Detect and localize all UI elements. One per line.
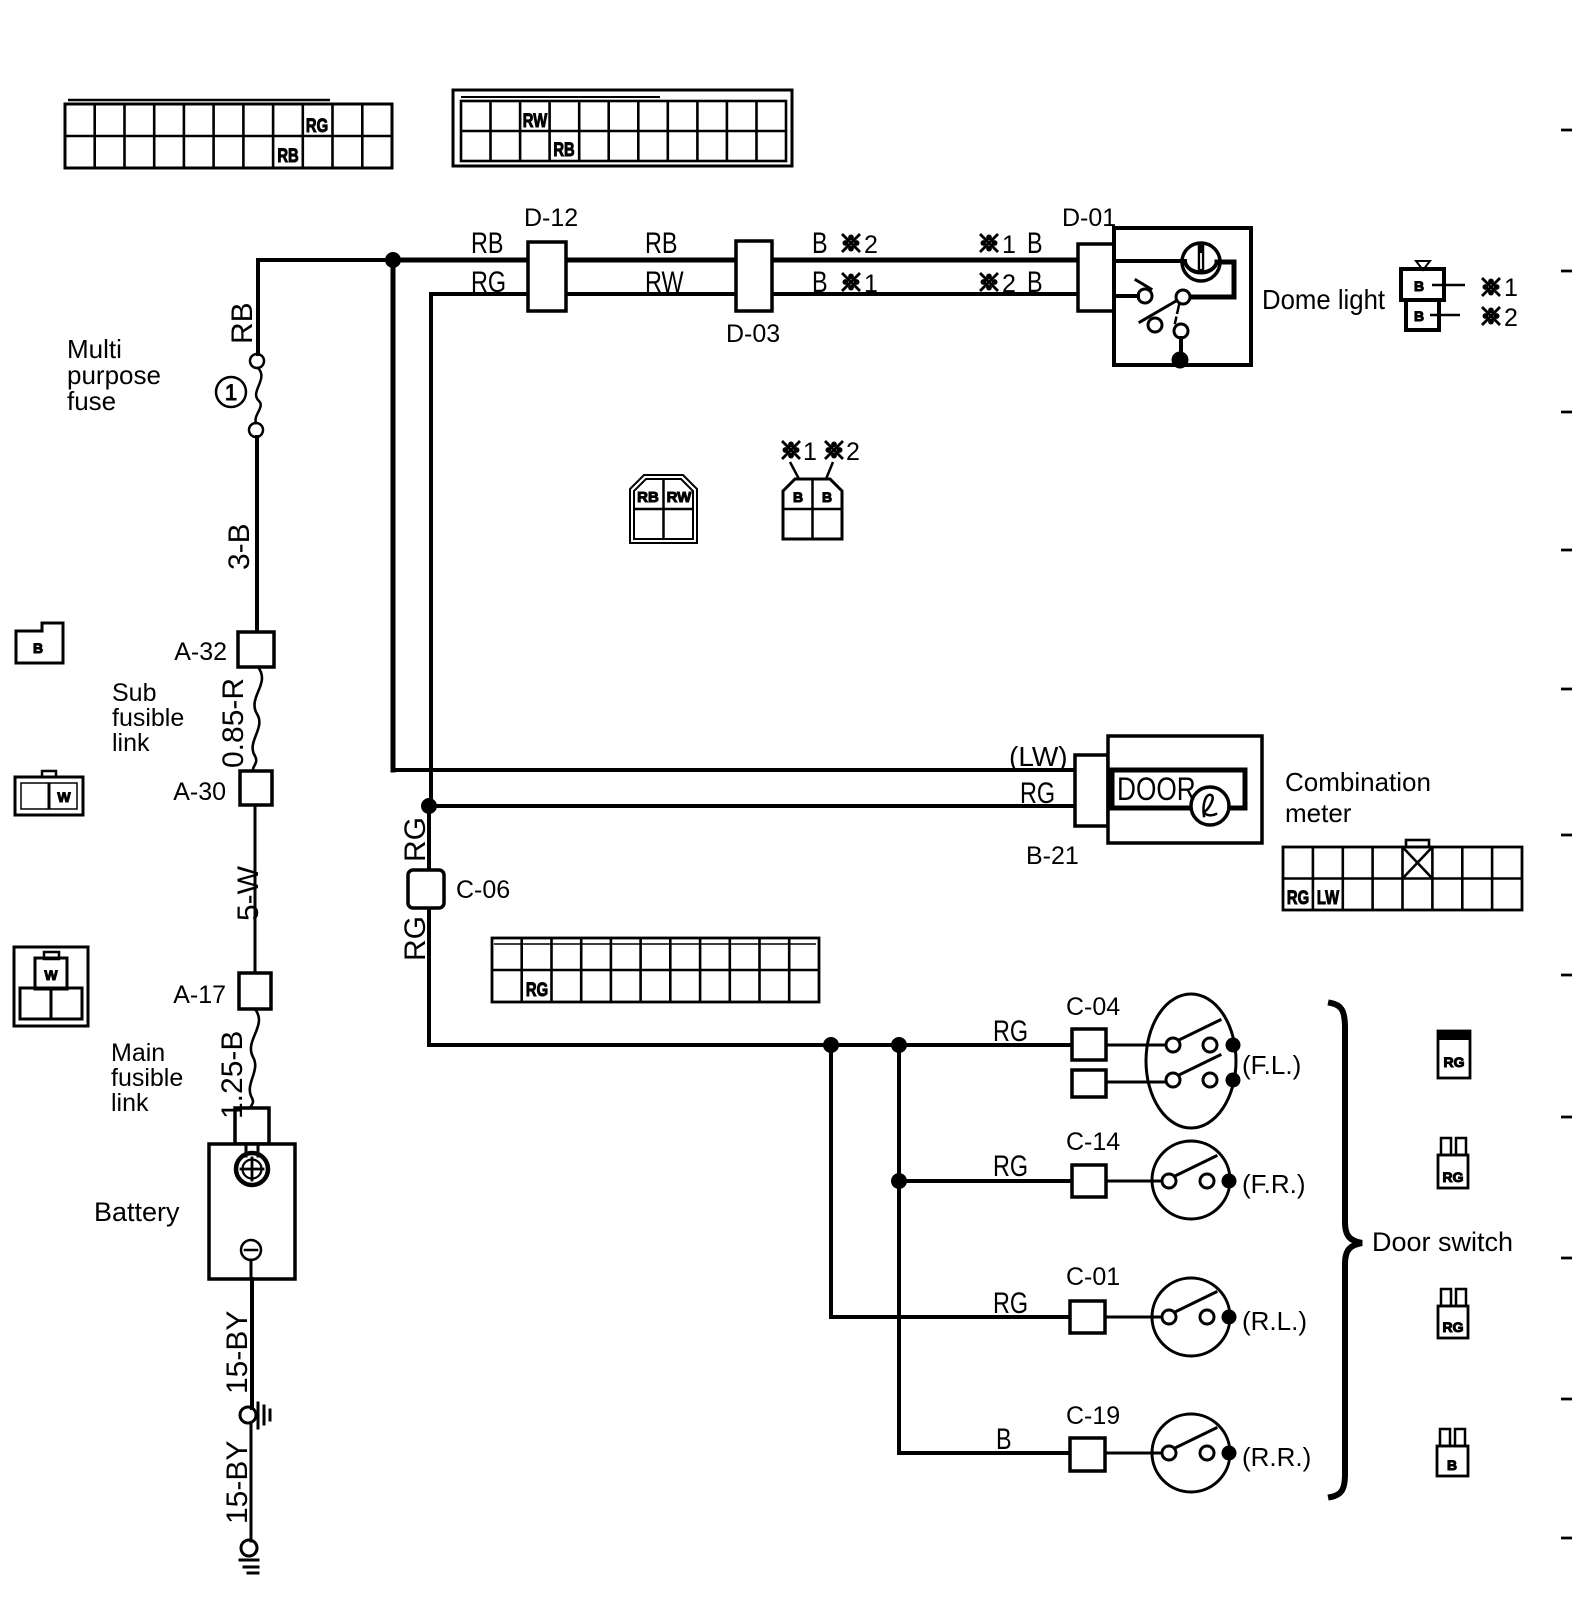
connector C-04 — [1072, 1029, 1106, 1060]
svg-text:RW: RW — [523, 110, 548, 131]
connector icon RB/RW (double border, chamfered) — [630, 475, 697, 543]
door switch group brace — [1331, 1003, 1362, 1497]
svg-text:D-01: D-01 — [1062, 204, 1116, 232]
svg-text:RG: RG — [993, 1286, 1028, 1319]
edge tick marks — [1561, 130, 1572, 1538]
svg-text:RG: RG — [471, 265, 506, 298]
wire LW horizontal to combination meter — [393, 768, 1077, 772]
svg-text:1.25-B: 1.25-B — [216, 1031, 249, 1119]
connector C-19 — [1070, 1438, 1105, 1471]
door switch F.L. — [1146, 994, 1236, 1128]
connector A-17 — [239, 973, 271, 1009]
node junction RG at B-21 branch — [421, 798, 437, 814]
svg-text:B: B — [812, 265, 828, 298]
svg-text:2: 2 — [1002, 270, 1016, 298]
connector D-03 — [736, 241, 772, 311]
door switch wire labels — [993, 1014, 1028, 1047]
connector icon W (left, two cavity) — [15, 777, 83, 815]
connector grid combination meter — [1283, 840, 1522, 910]
connector icon W (left, three cavity) — [14, 947, 88, 1026]
connector grid top-center — [453, 90, 792, 166]
wire 15-BY upper — [250, 1260, 253, 1279]
node junction door switch branch 1 — [823, 1037, 839, 1053]
multi purpose fuse symbol — [250, 354, 264, 368]
svg-text:2: 2 — [846, 438, 860, 466]
DOOR indicator lamp — [1191, 787, 1229, 825]
svg-text:Dome light: Dome light — [1262, 284, 1386, 315]
ground body symbol lower — [241, 1540, 257, 1556]
connector A-32 — [238, 632, 274, 667]
connector icon B (left, single cavity) — [16, 623, 63, 663]
DOOR indicator housing — [1112, 770, 1245, 808]
svg-text:W: W — [44, 967, 58, 983]
door switch icon RG solid top — [1438, 1031, 1470, 1078]
wire RB/B main top run to dome light — [393, 258, 1080, 263]
dome light switch blades — [1136, 280, 1151, 289]
svg-text:1: 1 — [225, 380, 237, 405]
label RG at B-21 — [1020, 776, 1055, 809]
node junction on top run — [385, 252, 401, 268]
dome light bulb — [1182, 243, 1220, 281]
svg-text:3-B: 3-B — [223, 523, 256, 570]
svg-text:(R.L.): (R.L.) — [1242, 1306, 1307, 1336]
fuse number circle 1 — [216, 377, 246, 407]
svg-text:1: 1 — [803, 438, 817, 466]
dome light switch wire in — [1114, 294, 1138, 298]
wire 5-W — [254, 805, 257, 973]
svg-text:W: W — [57, 789, 71, 805]
svg-text:A-32: A-32 — [174, 638, 227, 666]
svg-text:C-04: C-04 — [1066, 993, 1120, 1021]
connector A-30 — [240, 771, 272, 805]
connector D-12 — [528, 242, 566, 311]
reference marks top run — [842, 234, 860, 252]
ground body symbol upper — [240, 1407, 256, 1423]
reference marks dome connector icon — [1482, 278, 1500, 296]
svg-text:5-W: 5-W — [232, 865, 265, 921]
battery negative terminal — [241, 1240, 261, 1260]
svg-text:A-30: A-30 — [173, 778, 226, 806]
svg-text:RB: RB — [277, 145, 298, 166]
svg-text:RG: RG — [1020, 776, 1055, 809]
wire color labels top run — [471, 226, 503, 259]
wire RB vertical to fuse — [256, 260, 260, 354]
svg-text:RW: RW — [667, 489, 693, 506]
svg-text:RG: RG — [399, 916, 432, 961]
door switch icon B prongs (R.R.) — [1437, 1446, 1468, 1476]
svg-text:RG: RG — [1443, 1319, 1464, 1335]
svg-text:RB: RB — [471, 226, 503, 259]
sub fusible link wire 0.85-R — [253, 667, 262, 771]
svg-text:RB: RB — [637, 489, 659, 506]
svg-text:B: B — [1414, 308, 1424, 324]
svg-text:Battery: Battery — [94, 1197, 180, 1227]
svg-text:2: 2 — [1504, 304, 1518, 332]
svg-text:Combination: Combination — [1285, 767, 1431, 797]
connector B-21 — [1075, 755, 1108, 826]
wire branch to R.L. switch — [831, 1045, 1070, 1317]
svg-text:RG: RG — [399, 817, 432, 862]
svg-text:A-17: A-17 — [173, 981, 226, 1009]
node junction door switch branch 2 — [891, 1037, 907, 1053]
reference marks middle icons — [782, 441, 800, 459]
dome light switch contacts — [1138, 289, 1152, 303]
svg-text:Sub: Sub — [112, 679, 156, 707]
svg-text:RG: RG — [526, 979, 548, 1000]
leader lines from reference marks — [790, 462, 799, 479]
svg-text:C-06: C-06 — [456, 876, 510, 904]
wire RG vertical corner from lower run — [429, 294, 433, 806]
svg-text:RG: RG — [1443, 1169, 1464, 1185]
svg-text:DOOR: DOOR — [1117, 773, 1196, 808]
dome light lamp wiring — [1114, 259, 1185, 263]
door switch icon RG prongs (F.R.) — [1438, 1155, 1468, 1188]
wire branch to F.R. switch — [899, 1179, 1072, 1183]
svg-text:B: B — [812, 226, 828, 259]
label DOOR — [1117, 773, 1196, 808]
svg-text:link: link — [112, 729, 150, 757]
wire 15-BY lower — [250, 1423, 253, 1541]
battery terminal connector — [235, 1108, 269, 1144]
svg-text:RG: RG — [993, 1149, 1028, 1182]
wire RG bottom horizontal to door switches — [429, 1043, 1072, 1047]
node junction F.R. branch — [891, 1173, 907, 1189]
svg-text:link: link — [111, 1089, 149, 1117]
svg-text:2: 2 — [864, 231, 878, 259]
wire LW vertical from junction down — [391, 260, 396, 770]
dome light ground lead — [1179, 338, 1183, 360]
wire 3-B — [255, 437, 259, 632]
svg-text:RG: RG — [1444, 1054, 1465, 1070]
svg-text:C-19: C-19 — [1066, 1402, 1120, 1430]
dome light box — [1114, 228, 1251, 365]
svg-text:B: B — [1414, 278, 1424, 294]
wire RG horizontal to B-21 — [429, 804, 1077, 808]
svg-text:(F.L.): (F.L.) — [1242, 1050, 1301, 1080]
svg-text:B: B — [793, 489, 803, 505]
svg-text:Door switch: Door switch — [1372, 1227, 1513, 1257]
svg-text:(R.R.): (R.R.) — [1242, 1442, 1311, 1472]
door switch R.R. — [1152, 1414, 1230, 1492]
main fusible link wire 1.25-B — [250, 1009, 259, 1108]
svg-text:RB: RB — [226, 302, 259, 344]
wire branch to R.R. switch — [899, 1045, 1070, 1453]
svg-text:1: 1 — [1504, 274, 1518, 302]
svg-text:RB: RB — [645, 226, 677, 259]
battery box — [209, 1144, 295, 1279]
connector grid middle — [492, 938, 819, 1002]
svg-text:D-03: D-03 — [726, 320, 780, 348]
svg-text:1: 1 — [1002, 231, 1016, 259]
connector grid top-left — [65, 100, 392, 168]
door switch F.R. — [1152, 1141, 1230, 1219]
svg-text:RB: RB — [553, 139, 574, 160]
battery positive terminal — [246, 1146, 258, 1156]
label dome light — [1262, 284, 1386, 315]
svg-text:fuse: fuse — [67, 386, 116, 416]
dome light connector icon (right) — [1416, 261, 1430, 270]
svg-text:C-14: C-14 — [1066, 1128, 1120, 1156]
svg-text:RG: RG — [1287, 887, 1309, 908]
svg-text:B: B — [1027, 265, 1043, 298]
svg-text:D-12: D-12 — [524, 204, 578, 232]
wire RG vertical through C-06 — [427, 806, 431, 1045]
wire RG/RW/B lower run to dome light — [431, 292, 1080, 296]
connector C-14 — [1072, 1165, 1106, 1197]
svg-text:RG: RG — [993, 1014, 1028, 1047]
svg-text:RG: RG — [306, 115, 328, 136]
svg-text:0.85-R: 0.85-R — [217, 678, 250, 768]
svg-text:RW: RW — [645, 265, 684, 298]
combination meter box — [1108, 736, 1262, 843]
svg-text:Main: Main — [111, 1039, 165, 1067]
svg-text:LW: LW — [1317, 887, 1340, 908]
svg-text:B: B — [33, 640, 43, 656]
door switch R.L. — [1152, 1278, 1230, 1356]
svg-text:B-21: B-21 — [1026, 842, 1079, 870]
svg-text:meter: meter — [1285, 798, 1352, 828]
svg-text:1: 1 — [864, 270, 878, 298]
svg-text:15-BY: 15-BY — [221, 1441, 254, 1524]
connector D-01 — [1078, 244, 1114, 311]
svg-text:B: B — [1027, 226, 1043, 259]
svg-text:(F.R.): (F.R.) — [1242, 1169, 1306, 1199]
connector C-04 second cavity — [1072, 1070, 1106, 1097]
svg-text:(LW): (LW) — [1009, 741, 1068, 772]
svg-text:B: B — [996, 1422, 1012, 1455]
svg-text:15-BY: 15-BY — [221, 1311, 254, 1394]
wire RB horizontal top-left segment — [258, 258, 393, 262]
svg-text:C-01: C-01 — [1066, 1263, 1120, 1291]
connector C-01 — [1070, 1301, 1105, 1333]
connector icon B/B (chamfered) — [783, 479, 842, 539]
svg-text:B: B — [1447, 1457, 1457, 1473]
svg-text:fusible: fusible — [111, 1064, 183, 1092]
connector C-06 — [408, 870, 444, 908]
door switch icon RG prongs (R.L.) — [1438, 1306, 1468, 1338]
svg-text:fusible: fusible — [112, 704, 184, 732]
svg-text:B: B — [822, 489, 832, 505]
